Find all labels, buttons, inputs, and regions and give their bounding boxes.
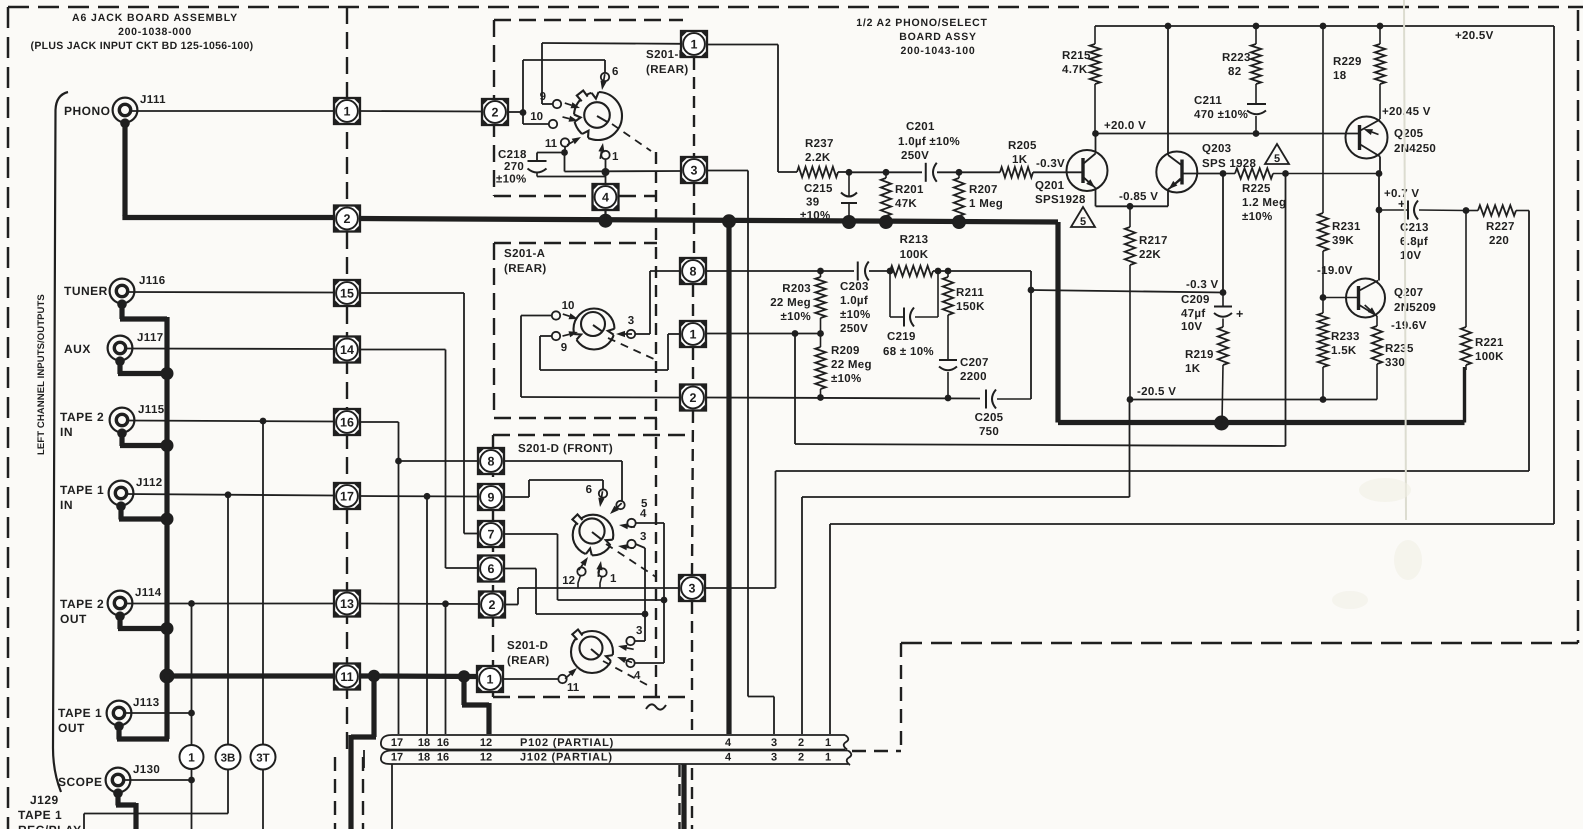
resistor R205 [1000, 140, 1037, 178]
wire J114 sleeve ground [118, 614, 167, 629]
warning triangle 5 (Q203) [1265, 144, 1289, 165]
switch contact 4 (S201-D rear) [617, 657, 641, 682]
wire box 9 to contact 6 [505, 480, 604, 497]
junction R233 on -20.5 rail [1320, 396, 1327, 403]
wire P102 pin 4 thick drop [726, 221, 731, 734]
wire 11-node to box 3 line [564, 153, 566, 172]
svg-text:OUT: OUT [60, 612, 87, 626]
svg-text:7: 7 [488, 527, 495, 541]
terminal box 7 (S201-D column) [478, 521, 504, 547]
rotary switch S201-A rotor [572, 309, 618, 350]
terminal box 17 (jack strip) [334, 483, 360, 509]
svg-text:2: 2 [489, 598, 496, 612]
resistor R213 [890, 234, 933, 276]
svg-text:LEFT CHANNEL INPUTS/OUTPUTS: LEFT CHANNEL INPUTS/OUTPUTS [36, 294, 47, 455]
svg-text:5: 5 [1080, 216, 1086, 228]
terminal box 2 (S201-A column) [680, 385, 706, 411]
svg-text:3: 3 [628, 315, 634, 327]
wire Q205 collector drop [1379, 157, 1380, 211]
S201-D dashed box [493, 435, 692, 697]
svg-text:R211: R211 [956, 287, 984, 299]
S201-D rear rotor pointer dashed [603, 661, 651, 687]
svg-text:AUX: AUX [64, 342, 91, 356]
svg-text:Q203: Q203 [1202, 143, 1231, 155]
wire C201 to R207 node [937, 171, 959, 173]
switch contact 10 (S201-A) [552, 300, 578, 320]
wire box 2 jog to feedback rail [506, 588, 680, 605]
junction J112 tip / 3B net [225, 491, 232, 498]
svg-text:J113: J113 [133, 697, 160, 709]
junction output node +0.7V [1376, 207, 1383, 214]
svg-text:C215: C215 [804, 183, 833, 195]
svg-text:4: 4 [640, 508, 647, 520]
svg-text:6: 6 [488, 562, 495, 576]
rotary switch S201-D front rotor [572, 514, 615, 558]
svg-text:P102 (PARTIAL): P102 (PARTIAL) [520, 737, 614, 749]
label TUNER [64, 284, 108, 298]
svg-text:250V: 250V [901, 150, 929, 162]
wire ground bus bottom [1058, 420, 1465, 425]
svg-text:1: 1 [691, 37, 698, 51]
junction feedback pickoff [792, 330, 799, 337]
jack J117 AUX [108, 332, 164, 366]
capacitor C213 [1379, 197, 1466, 262]
label J129 TAPE 1 REC/PLAY [18, 793, 82, 829]
wire R205 to Q201 base [1033, 171, 1067, 173]
svg-text:68 ± 10%: 68 ± 10% [883, 346, 934, 358]
wire contact 4 stub [636, 523, 665, 600]
wire -20.5V rail [1130, 399, 1377, 401]
junction R203 bottom [817, 330, 824, 337]
resistor R225 [1223, 168, 1379, 223]
net label circle 1 [180, 745, 204, 769]
resistor R209 [815, 334, 871, 398]
warning triangle 5 (Q201) [1071, 207, 1095, 228]
svg-text:11: 11 [340, 670, 353, 684]
svg-text:1.0µf ±10%: 1.0µf ±10% [898, 136, 960, 148]
svg-text:1K: 1K [1185, 363, 1201, 375]
wire J115 sleeve ground [120, 431, 167, 446]
svg-text:J117: J117 [137, 332, 164, 344]
wire J113 sleeve ground [117, 724, 169, 740]
label SCOPE [58, 775, 103, 789]
wire terminal 9 to box 1 [540, 334, 680, 370]
junction terminal 11 node [561, 149, 568, 156]
svg-text:R233: R233 [1331, 331, 1360, 343]
resistor R229 [1333, 26, 1385, 119]
S201-B dashed box [494, 20, 683, 196]
svg-text:1: 1 [825, 737, 831, 749]
switch contact 6 (S201-B) [601, 66, 619, 90]
terminal box 14 (jack strip) [334, 337, 360, 363]
terminal box 8 (S201-A column) [680, 258, 706, 284]
wire ground bus box11 east [360, 673, 377, 678]
svg-text:8: 8 [690, 264, 697, 278]
switch contact 3 (S201-D front) [618, 531, 646, 550]
wire ground bus TAPE2IN to TAPE1IN [164, 446, 169, 520]
switch contact 3 (S201-D rear) [618, 625, 642, 651]
wire +20.5V top rail [1095, 25, 1554, 27]
switch contact 11 (S201-D rear) [558, 668, 579, 694]
wire box16 TAPE2IN down [360, 422, 399, 734]
svg-text:2200: 2200 [960, 371, 987, 383]
svg-text:1: 1 [825, 752, 831, 764]
svg-text:2: 2 [690, 391, 697, 405]
label S201-B (REAR) [646, 49, 689, 76]
terminal box 1 (S201-B column) [681, 31, 707, 57]
svg-text:Q207: Q207 [1394, 287, 1423, 299]
svg-text:100K: 100K [900, 249, 929, 261]
wire box 1 to R203 bottom [707, 333, 821, 335]
label PHONO [64, 104, 111, 118]
wire box 6 to contact 3 node [505, 569, 646, 615]
wire node to terminal 10 [523, 113, 549, 125]
svg-text:A6 JACK BOARD ASSEMBLY: A6 JACK BOARD ASSEMBLY [72, 12, 238, 24]
svg-text:16: 16 [437, 737, 449, 749]
jack J113 TAPE 1 OUT [107, 697, 160, 731]
wire Q203 base node [1203, 173, 1223, 175]
svg-text:4: 4 [725, 752, 732, 764]
transistor Q201 [1035, 150, 1108, 206]
svg-text:1.0µf: 1.0µf [840, 295, 868, 307]
svg-text:11: 11 [567, 682, 580, 694]
svg-text:J116: J116 [139, 275, 166, 287]
wire C215 node to R201 node [849, 171, 886, 173]
svg-text:12: 12 [480, 737, 492, 749]
P102 pin labels [391, 737, 831, 749]
jack J111 PHONO [113, 94, 167, 128]
S201-B rotor pointer dashed [612, 124, 651, 151]
terminal strip dashed fork right [362, 757, 364, 829]
wire box 1 right to R237 column [708, 45, 798, 173]
wire emitter tie line [1096, 205, 1169, 207]
svg-text:22 Meg: 22 Meg [831, 359, 872, 371]
svg-text:J114: J114 [135, 587, 162, 599]
svg-text:2N5209: 2N5209 [1394, 302, 1436, 314]
capacitor C218 [496, 149, 547, 186]
node label +0.7 V [1384, 188, 1419, 200]
svg-text:9: 9 [561, 342, 567, 354]
svg-text:-20.5 V: -20.5 V [1137, 386, 1176, 398]
junction -0.3V node [1220, 289, 1227, 296]
jack J116 TUNER [110, 275, 166, 309]
capacitor C209 [1181, 293, 1243, 334]
wire J130 sleeve ground [116, 792, 136, 829]
scan crease [1404, 0, 1406, 520]
junction C215 node [846, 169, 853, 176]
terminal box 11 (jack strip) [334, 664, 360, 690]
svg-text:R215: R215 [1062, 50, 1091, 62]
svg-text:9: 9 [540, 91, 546, 103]
terminal box 2 (S201-B) [482, 99, 508, 125]
svg-text:R237: R237 [805, 138, 834, 150]
svg-text:4: 4 [602, 190, 609, 204]
svg-text:SCOPE: SCOPE [58, 775, 103, 789]
wire box 7 to contact 4 node [505, 534, 665, 600]
svg-text:47K: 47K [895, 198, 917, 210]
terminal box 4 (S201-B) [593, 184, 619, 210]
jack J114 TAPE 2 OUT [108, 587, 162, 621]
svg-text:C203: C203 [840, 281, 869, 293]
wire contact 3 rear stub [635, 614, 646, 641]
label TAPE 2 IN [60, 410, 104, 439]
phono/select board dashed border (bottom edge) [901, 642, 1578, 645]
junction ground bus at AUX [161, 367, 174, 380]
wire 3T net vertical (tape 2 in) [262, 421, 264, 829]
bottom dashed pair at x=680 [678, 765, 680, 829]
svg-text:J112: J112 [136, 477, 163, 489]
squiggle break mark [646, 704, 666, 709]
svg-text:±10%: ±10% [496, 174, 527, 186]
svg-text:S201-A: S201-A [504, 248, 545, 260]
svg-text:220: 220 [1489, 235, 1509, 247]
svg-text:6: 6 [586, 484, 592, 496]
wire terminal 10 to box 2 [521, 316, 680, 398]
svg-text:-0.85 V: -0.85 V [1119, 191, 1158, 203]
node label -19.0V [1317, 265, 1353, 277]
switch contact 1 (S201-B) [598, 143, 619, 163]
junction R225 at Q205 collector [1376, 170, 1383, 177]
label TAPE 2 OUT [60, 597, 104, 626]
svg-text:J102 (PARTIAL): J102 (PARTIAL) [520, 752, 613, 764]
wire pin 18 drop [426, 496, 428, 734]
net label circle 3B [216, 745, 241, 770]
wire box15 TUNER to box 7 [360, 293, 478, 534]
junction C207 bottom [945, 395, 952, 402]
wire C203 to R213 [869, 270, 890, 272]
resistor R231 [1318, 26, 1361, 298]
svg-text:11: 11 [545, 138, 558, 150]
svg-text:C211: C211 [1194, 95, 1222, 107]
connector J102 row outline [364, 750, 851, 768]
resistor R215 [1062, 26, 1100, 134]
wire record net vertical (tape outs to scope) [191, 604, 193, 829]
jack J130 SCOPE [106, 764, 161, 798]
svg-text:R203: R203 [782, 283, 811, 295]
junction network to Q203-base branch [1028, 287, 1035, 294]
wire ground bus box2 to corner [360, 219, 1058, 223]
label S201-D (REAR) [507, 640, 550, 667]
terminal box 8 (S201-D column) [478, 448, 504, 474]
svg-text:18: 18 [1333, 70, 1347, 82]
wire box 4 bottom stub [604, 211, 606, 221]
svg-text:±10%: ±10% [831, 373, 862, 385]
svg-text:1 Meg: 1 Meg [969, 198, 1003, 210]
svg-text:16: 16 [437, 752, 449, 764]
svg-text:IN: IN [60, 425, 73, 439]
svg-text:Q205: Q205 [1394, 128, 1424, 140]
wire Q203 collector riser [1167, 26, 1169, 155]
wire TUNER sleeve ground [120, 302, 167, 374]
svg-text:C209: C209 [1181, 294, 1210, 306]
phono/select board dashed border (right edge) [1577, 10, 1580, 643]
wire J112 tip to box 17 [127, 494, 334, 496]
svg-text:5: 5 [1274, 153, 1280, 165]
junction R223 on rail [1253, 23, 1260, 30]
resistor R219 [1185, 327, 1228, 423]
label S201-D (FRONT) [518, 443, 613, 455]
wire box13 record to S201-D box2 [360, 603, 479, 606]
S201-D front rotor pointer dashed [606, 544, 656, 577]
svg-text:330: 330 [1385, 357, 1405, 369]
resistor R223 [1222, 26, 1261, 103]
junction contact 4 node [661, 597, 668, 604]
svg-text:TAPE 1: TAPE 1 [18, 808, 62, 822]
svg-text:12: 12 [562, 575, 575, 587]
wire J102 ground stub [681, 764, 686, 829]
title A6 jack board assembly [31, 12, 254, 52]
switch contact 1 (S201-D front) [596, 561, 617, 585]
svg-text:470 ±10%: 470 ±10% [1194, 109, 1248, 121]
svg-text:13: 13 [340, 597, 354, 611]
junction bus at box 4 [599, 214, 613, 228]
svg-text:R205: R205 [1008, 140, 1037, 152]
terminal box 1 (S201-A column) [680, 321, 706, 347]
svg-text:1: 1 [487, 672, 494, 686]
wire branch to box 8 [399, 460, 478, 462]
svg-text:R217: R217 [1139, 235, 1168, 247]
svg-text:PHONO: PHONO [64, 104, 111, 118]
svg-text:9: 9 [488, 490, 495, 504]
wire contact 12 leg [578, 576, 581, 589]
capacitor C203 [840, 262, 871, 336]
junction R209 bottom [817, 394, 824, 401]
terminal box 2 (S201-D column) [479, 592, 505, 618]
svg-text:S201-D (FRONT): S201-D (FRONT) [518, 443, 613, 455]
svg-text:(REAR): (REAR) [507, 655, 550, 667]
wire ground pigtail down-left to sheet edge [351, 676, 376, 829]
S201-A dashed box [494, 243, 657, 418]
wire 3B net to J129 [84, 814, 228, 829]
wire Q201 emitter drop [1095, 188, 1097, 206]
svg-text:+20.5V: +20.5V [1455, 30, 1494, 42]
switch contact 4 (S201-D front) [619, 508, 647, 529]
resistor R221 [1461, 211, 1504, 371]
svg-text:(PLUS JACK INPUT CKT BD 125-10: (PLUS JACK INPUT CKT BD 125-1056-100) [31, 40, 254, 52]
wire J130 tip [124, 779, 192, 781]
svg-text:10: 10 [530, 111, 543, 123]
junction J130 tip / record net [188, 777, 195, 784]
svg-text:-19.6V: -19.6V [1391, 320, 1427, 332]
svg-text:C218: C218 [498, 149, 527, 161]
svg-text:C205: C205 [975, 412, 1004, 424]
junction C215 on bus [842, 215, 856, 229]
resistor R203 [770, 271, 825, 333]
jack J115 TAPE 2 IN [110, 404, 165, 438]
capacitor C219 loop [883, 271, 938, 358]
junction R211 top [945, 268, 952, 275]
wire box2 to common node [360, 111, 523, 112]
node label +20.45 V [1382, 106, 1431, 118]
wire node to terminal 6 [523, 60, 605, 113]
junction ground bus at TAPE1IN [161, 513, 174, 526]
resistor R201 [881, 172, 924, 219]
svg-text:47µf: 47µf [1181, 308, 1205, 320]
label AUX [64, 342, 91, 356]
wire 11-node to C218 [537, 153, 565, 161]
wire J111 tip to box 1 [131, 110, 334, 112]
junction record net to P102 pin 16 [442, 600, 449, 607]
wire R201 node to C201 [886, 171, 922, 173]
svg-text:17: 17 [391, 752, 403, 764]
jack board dashed border (left edge) [7, 7, 10, 829]
terminal box column dashed x=693 [692, 58, 694, 829]
node label -0.3V (Q201 base) [1036, 158, 1065, 170]
svg-text:C219: C219 [887, 331, 916, 343]
resistor R233 [1318, 298, 1360, 400]
svg-text:17: 17 [340, 489, 354, 503]
wire contact 4 rear stub [635, 600, 664, 663]
junction R217 on -20.5 rail [1127, 396, 1134, 403]
svg-text:82: 82 [1228, 66, 1241, 78]
node label -0.3 V (C209) [1186, 279, 1219, 291]
switch contact 5 (S201-D front) [610, 498, 648, 514]
svg-text:2: 2 [798, 737, 804, 749]
svg-text:R221: R221 [1475, 337, 1504, 349]
wire terminal 11 node [564, 147, 566, 153]
title A2 phono/select board assy [856, 17, 988, 57]
net label circle 3T [251, 745, 276, 770]
svg-text:1: 1 [690, 327, 697, 341]
jack board dashed border (top edge) [8, 6, 1583, 9]
terminal box 15 (jack strip) [334, 280, 360, 306]
junction Q203 base node [1220, 170, 1227, 177]
junction S201-B input node [520, 109, 527, 116]
wire terminal 3 to box 8 [635, 271, 680, 334]
svg-text:1: 1 [188, 751, 195, 765]
junction ground bus at TAPE2IN [161, 439, 174, 452]
wire box14 AUX to box 6 [360, 350, 478, 569]
svg-text:TAPE 1: TAPE 1 [58, 706, 102, 720]
wire contact 1 leg [600, 577, 602, 588]
wire to C203 [821, 270, 855, 272]
wire box 3 right to P102 pin 3 [708, 171, 775, 735]
svg-text:-0.3V: -0.3V [1036, 158, 1065, 170]
svg-text:1K: 1K [1012, 154, 1028, 166]
node label -19.6V [1391, 320, 1427, 332]
svg-text:TUNER: TUNER [64, 284, 108, 298]
junction J115 tip / 3T net [260, 418, 267, 425]
svg-text:R229: R229 [1333, 56, 1362, 68]
svg-text:S201-D: S201-D [507, 640, 548, 652]
junction C213 / R227 / R221 node [1463, 207, 1470, 214]
svg-text:250V: 250V [840, 323, 868, 335]
resistor R217 [1125, 206, 1168, 399]
wire terminal 1 drop to box 4 [605, 159, 607, 184]
junction ground bus pigtail [368, 670, 380, 682]
capacitor C205 [975, 390, 1031, 439]
svg-text:J129: J129 [30, 793, 59, 807]
label TAPE 1 IN [60, 483, 104, 512]
junction ground bus at box 11 row [160, 669, 175, 684]
capacitor C215 [800, 172, 857, 222]
switch wafer dashed line x=656 [655, 152, 657, 700]
wire AUX sleeve ground [118, 359, 167, 374]
label S201-A (REAR) [504, 248, 547, 275]
svg-text:3T: 3T [256, 753, 269, 765]
terminal box 3 (S201-B column) [681, 157, 707, 183]
svg-text:1: 1 [610, 573, 617, 585]
svg-text:J111: J111 [140, 94, 166, 106]
svg-text:TAPE 2: TAPE 2 [60, 410, 104, 424]
wire ground bus to S201-D box1 [374, 673, 477, 679]
svg-text:18: 18 [418, 737, 430, 749]
svg-text:SPS1928: SPS1928 [1035, 194, 1086, 206]
svg-text:1/2 A2 PHONO/SELECT: 1/2 A2 PHONO/SELECT [856, 17, 988, 29]
terminal strip dashed line x=347 [346, 7, 348, 757]
wire J113 tip [125, 712, 192, 714]
junction R201 node [883, 169, 890, 176]
